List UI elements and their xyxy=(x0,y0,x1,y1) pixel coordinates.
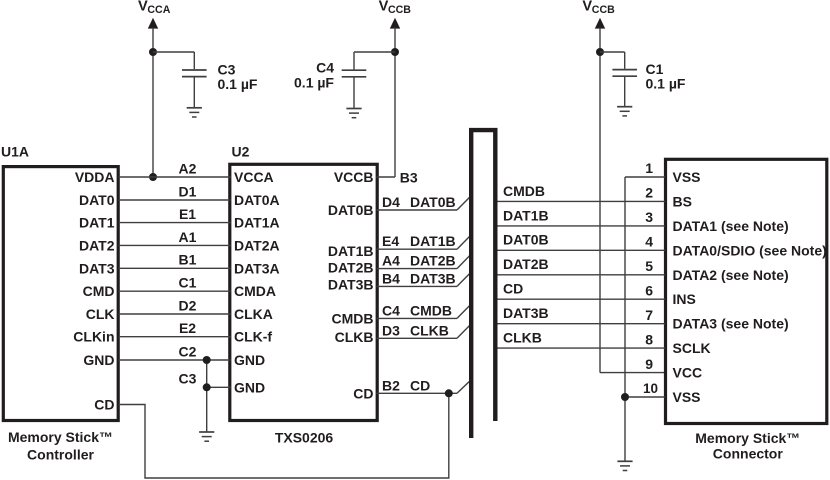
svg-text:CCB: CCB xyxy=(592,4,615,16)
svg-text:DATA0/SDIO (see Note): DATA0/SDIO (see Note) xyxy=(673,242,827,258)
svg-text:CCB: CCB xyxy=(388,4,411,16)
svg-text:U1A: U1A xyxy=(1,143,29,159)
svg-text:5: 5 xyxy=(645,258,653,274)
svg-text:C4: C4 xyxy=(382,302,400,318)
svg-text:CLK-f: CLK-f xyxy=(234,329,272,345)
svg-text:DAT2B: DAT2B xyxy=(410,253,456,269)
svg-text:GND: GND xyxy=(83,352,114,368)
svg-text:CLKA: CLKA xyxy=(234,306,273,322)
svg-text:DAT1A: DAT1A xyxy=(234,215,280,231)
svg-text:U2: U2 xyxy=(232,144,250,160)
svg-text:CLKin: CLKin xyxy=(73,329,114,345)
svg-text:7: 7 xyxy=(645,307,653,323)
svg-text:0.1 µF: 0.1 µF xyxy=(294,74,334,90)
svg-text:CCA: CCA xyxy=(147,4,170,16)
svg-text:DAT1B: DAT1B xyxy=(410,233,456,249)
svg-text:4: 4 xyxy=(645,234,653,250)
svg-text:DAT2A: DAT2A xyxy=(234,237,280,253)
svg-text:DATA3 (see Note): DATA3 (see Note) xyxy=(673,316,789,332)
svg-text:DAT0B: DAT0B xyxy=(328,202,374,218)
svg-text:DAT1B: DAT1B xyxy=(328,243,374,259)
svg-text:D1: D1 xyxy=(179,183,197,199)
svg-text:Connector: Connector xyxy=(713,445,784,461)
svg-text:CMDA: CMDA xyxy=(234,283,276,299)
svg-text:DAT0B: DAT0B xyxy=(410,194,456,210)
svg-text:DAT3A: DAT3A xyxy=(234,260,280,276)
svg-text:A4: A4 xyxy=(382,253,400,269)
svg-text:A1: A1 xyxy=(179,229,197,245)
svg-text:E4: E4 xyxy=(382,233,399,249)
svg-text:DATA2 (see Note): DATA2 (see Note) xyxy=(673,267,789,283)
svg-text:0.1 µF: 0.1 µF xyxy=(646,76,686,92)
svg-text:DAT2B: DAT2B xyxy=(503,256,549,272)
svg-text:CLKB: CLKB xyxy=(335,329,374,345)
svg-text:D3: D3 xyxy=(382,322,400,338)
svg-text:9: 9 xyxy=(645,356,653,372)
svg-text:CD: CD xyxy=(353,385,373,401)
svg-text:DAT3B: DAT3B xyxy=(328,277,374,293)
svg-text:DAT2B: DAT2B xyxy=(328,260,374,276)
svg-text:C2: C2 xyxy=(179,343,197,359)
svg-text:CD: CD xyxy=(503,281,523,297)
svg-text:CD: CD xyxy=(410,377,430,393)
svg-text:B3: B3 xyxy=(400,169,418,185)
svg-text:VCCB: VCCB xyxy=(334,169,374,185)
svg-text:DAT0A: DAT0A xyxy=(234,192,280,208)
svg-text:A2: A2 xyxy=(179,160,197,176)
svg-text:Controller: Controller xyxy=(27,447,94,463)
svg-text:VSS: VSS xyxy=(673,389,701,405)
svg-text:B1: B1 xyxy=(179,252,197,268)
svg-text:CLKB: CLKB xyxy=(503,330,542,346)
svg-text:CLK: CLK xyxy=(86,306,115,322)
svg-text:0.1 µF: 0.1 µF xyxy=(218,76,258,92)
svg-text:DAT1: DAT1 xyxy=(79,215,115,231)
svg-text:D4: D4 xyxy=(382,194,400,210)
svg-text:Memory Stick™: Memory Stick™ xyxy=(8,429,113,445)
svg-text:DAT1B: DAT1B xyxy=(503,207,549,223)
svg-text:C3: C3 xyxy=(179,371,197,387)
svg-text:VCC: VCC xyxy=(673,365,703,381)
svg-text:DAT2: DAT2 xyxy=(79,237,115,253)
svg-text:VDDA: VDDA xyxy=(75,169,115,185)
svg-text:INS: INS xyxy=(673,291,696,307)
svg-text:SCLK: SCLK xyxy=(673,340,711,356)
svg-text:CMDB: CMDB xyxy=(503,183,545,199)
svg-text:8: 8 xyxy=(645,331,653,347)
svg-text:DATA1 (see Note): DATA1 (see Note) xyxy=(673,218,789,234)
svg-text:VCCA: VCCA xyxy=(234,169,274,185)
svg-text:VSS: VSS xyxy=(673,169,701,185)
svg-text:E1: E1 xyxy=(179,206,196,222)
svg-text:3: 3 xyxy=(645,209,653,225)
svg-text:DAT3B: DAT3B xyxy=(503,305,549,321)
svg-text:GND: GND xyxy=(234,352,265,368)
svg-text:B2: B2 xyxy=(382,377,400,393)
svg-text:2: 2 xyxy=(645,185,653,201)
svg-text:DAT3: DAT3 xyxy=(79,260,115,276)
svg-text:D2: D2 xyxy=(179,297,197,313)
svg-text:BS: BS xyxy=(673,193,692,209)
svg-text:CD: CD xyxy=(94,397,114,413)
svg-text:CLKB: CLKB xyxy=(410,322,449,338)
svg-text:DAT0: DAT0 xyxy=(79,192,115,208)
svg-text:CMDB: CMDB xyxy=(410,302,452,318)
svg-text:B4: B4 xyxy=(382,270,400,286)
svg-text:6: 6 xyxy=(645,282,653,298)
svg-text:Memory Stick™: Memory Stick™ xyxy=(695,430,800,446)
svg-text:C1: C1 xyxy=(179,275,197,291)
svg-text:CMDB: CMDB xyxy=(332,310,374,326)
svg-text:CMD: CMD xyxy=(83,283,115,299)
svg-text:DAT3B: DAT3B xyxy=(410,270,456,286)
svg-text:DAT0B: DAT0B xyxy=(503,232,549,248)
svg-text:10: 10 xyxy=(643,381,658,396)
svg-text:E2: E2 xyxy=(179,320,196,336)
svg-text:C4: C4 xyxy=(316,60,334,76)
svg-text:1: 1 xyxy=(645,160,653,176)
svg-text:TXS0206: TXS0206 xyxy=(275,430,334,446)
svg-text:GND: GND xyxy=(234,379,265,395)
